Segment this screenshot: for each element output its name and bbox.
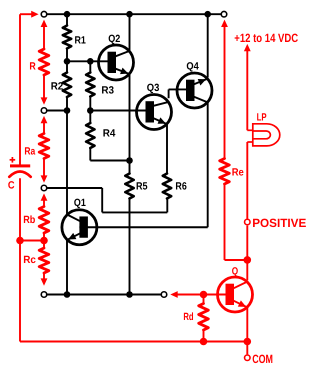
svg-text:C: C [8,179,15,191]
svg-text:Q: Q [232,266,238,278]
svg-text:COM: COM [252,352,273,366]
svg-text:R1: R1 [75,34,87,46]
svg-text:LP: LP [257,111,267,123]
svg-text:Rc: Rc [23,254,36,266]
svg-text:Q3: Q3 [147,82,160,94]
svg-text:Q2: Q2 [108,33,120,45]
svg-text:R5: R5 [136,180,148,192]
svg-text:R4: R4 [103,127,116,139]
svg-text:Ra: Ra [24,145,35,157]
svg-text:Q1: Q1 [74,197,86,209]
svg-text:+12 to 14 VDC: +12 to 14 VDC [234,31,298,45]
svg-text:R3: R3 [101,84,114,96]
svg-text:R6: R6 [175,180,187,192]
svg-text:Re: Re [232,167,244,179]
svg-text:R: R [29,61,36,73]
svg-text:Q4: Q4 [186,60,199,72]
svg-text:POSITIVE: POSITIVE [252,216,306,230]
svg-text:Rd: Rd [183,311,193,323]
svg-text:R2: R2 [51,81,64,93]
svg-text:Rb: Rb [23,214,35,226]
